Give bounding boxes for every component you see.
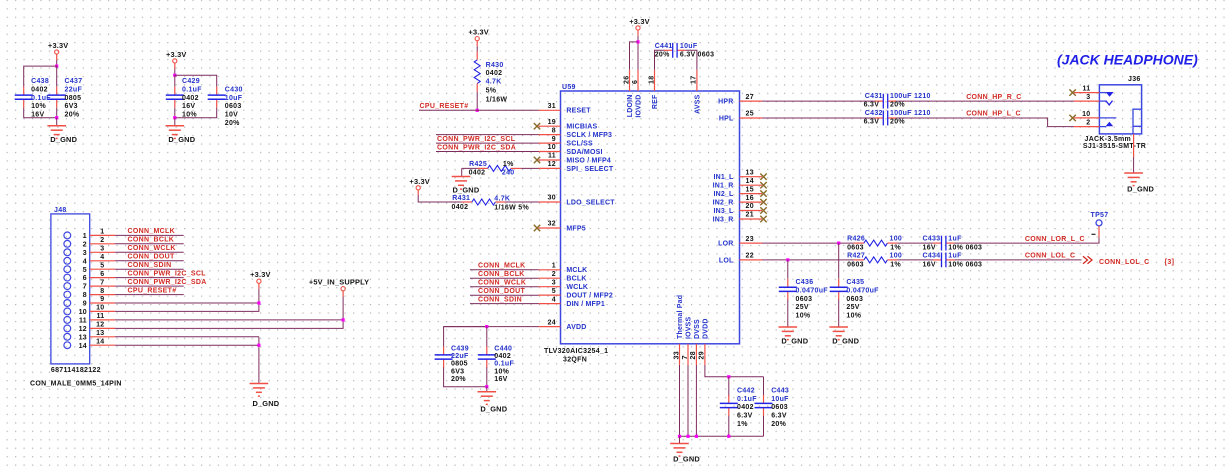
svg-text:CONN_SDIN: CONN_SDIN (478, 296, 522, 303)
svg-text:26: 26 (623, 76, 630, 84)
svg-text:687114182122: 687114182122 (51, 367, 101, 374)
wire AVDD (444, 327, 539, 348)
svg-text:240: 240 (502, 170, 515, 177)
svg-text:3: 3 (1086, 94, 1090, 101)
test point TP57 (1096, 220, 1102, 226)
pin 11 MISO / MFP4 U59 (539, 159, 561, 161)
svg-text:1%: 1% (503, 161, 514, 168)
pin 28 DVSS U59 bottom (695, 344, 697, 365)
capacitor C437 (56, 66, 58, 87)
wire +3.3V down to pin 9 (258, 289, 260, 303)
svg-text:23: 23 (746, 236, 754, 243)
ground D_GND (C436) (779, 326, 798, 328)
wire J48 pin 13 (115, 336, 259, 338)
svg-text:CONN_PWR_I2C_SDA: CONN_PWR_I2C_SDA (128, 279, 207, 286)
svg-text:R430: R430 (486, 62, 504, 69)
svg-text:D_GND: D_GND (50, 135, 77, 144)
svg-text:0603: 0603 (225, 103, 242, 110)
node junction pin 9 +3.3V (257, 301, 260, 304)
svg-text:(JACK HEADPHONE): (JACK HEADPHONE) (1057, 52, 1198, 68)
node junction C440 bottom (485, 385, 488, 388)
wire J48 pin 4 net CONN_DOUT (115, 260, 184, 262)
connector J48 body (51, 214, 90, 364)
wire R431 to LDO_SELECT (505, 201, 538, 203)
wire DVDD to C442/C443 rail (705, 365, 764, 377)
wire Thermal Pad to ground rail (679, 365, 681, 436)
svg-text:6: 6 (632, 80, 639, 84)
svg-text:10%: 10% (31, 103, 46, 110)
svg-text:CONN_LOL_C: CONN_LOL_C (1099, 259, 1149, 266)
svg-text:27: 27 (746, 94, 754, 101)
wire C438 top rail (24, 66, 57, 87)
svg-text:32QFN: 32QFN (563, 356, 587, 363)
svg-text:C440: C440 (494, 345, 512, 352)
connector J36 pin stubs (1074, 92, 1100, 94)
pin 33 Thermal Pad U59 bottom (679, 344, 681, 365)
svg-text:11: 11 (1083, 85, 1091, 92)
pin 19 MICBIAS U59 (539, 125, 561, 127)
svg-text:0402: 0402 (182, 95, 199, 102)
svg-text:DVDD: DVDD (703, 318, 710, 339)
wire J48 pin 1 net CONN_MCLK (115, 234, 184, 236)
svg-text:1/16W 5%: 1/16W 5% (494, 204, 529, 211)
svg-text:CONN_MCLK: CONN_MCLK (128, 228, 175, 235)
svg-text:19: 19 (548, 119, 556, 126)
wire +3.3V to R431 (418, 195, 462, 202)
svg-text:22uF: 22uF (65, 86, 83, 93)
power +3.3V (R430) (475, 37, 479, 41)
svg-text:13: 13 (79, 334, 87, 341)
svg-text:10: 10 (548, 144, 556, 151)
svg-text:16V: 16V (31, 112, 44, 119)
wire CPU_RESET# to RESET pin (419, 109, 539, 111)
wire J48 pin 11 (115, 319, 343, 321)
svg-text:CONN_BCLK: CONN_BCLK (128, 237, 175, 244)
svg-text:CONN_SDIN: CONN_SDIN (128, 262, 172, 269)
svg-text:0402: 0402 (452, 204, 469, 211)
wire C433 to TP57 (954, 237, 1099, 243)
svg-text:1/16W: 1/16W (486, 97, 508, 104)
resistor R427 (854, 259, 864, 261)
svg-text:10%: 10% (494, 368, 509, 375)
svg-text:6.3V: 6.3V (864, 119, 880, 126)
wire CONN_WCLK to U59 (470, 286, 539, 288)
svg-text:U59: U59 (562, 84, 576, 91)
pin 3 WCLK U59 (539, 286, 561, 288)
svg-text:10uF: 10uF (225, 95, 243, 102)
wire C436 to ground (787, 300, 789, 327)
svg-text:20: 20 (746, 203, 754, 210)
wire R430 to RESET (476, 92, 478, 111)
wire C430 bottom (175, 108, 217, 118)
svg-text:2: 2 (100, 237, 104, 244)
svg-text:0603: 0603 (698, 52, 715, 59)
capacitor C439 (443, 346, 445, 355)
svg-text:0.0470uF: 0.0470uF (846, 287, 879, 294)
svg-text:0603: 0603 (796, 296, 813, 303)
svg-text:D_GND: D_GND (673, 455, 700, 464)
ground D_GND (DVSS rail) (679, 436, 681, 443)
connector J48 pin stubs (90, 234, 115, 236)
pin 25 HPL U59 (740, 117, 763, 119)
svg-text:D_GND: D_GND (832, 337, 859, 346)
svg-text:AVDD: AVDD (566, 324, 586, 331)
svg-text:2: 2 (1086, 120, 1090, 127)
svg-text:SJ1-3515-SMT-TR: SJ1-3515-SMT-TR (1083, 143, 1146, 150)
wire IOVSS to ground rail (687, 365, 689, 436)
wire R427 to C434 (897, 259, 933, 261)
svg-text:D_GND: D_GND (168, 135, 195, 144)
svg-text:0402: 0402 (737, 404, 754, 411)
svg-text:16V: 16V (923, 261, 936, 268)
wire J48 pin 7 net CONN_PWR_I2C_SDA (115, 285, 184, 287)
svg-text:+5V_IN_SUPPLY: +5V_IN_SUPPLY (309, 278, 369, 287)
svg-text:20%: 20% (65, 112, 80, 119)
svg-text:HPR: HPR (718, 99, 733, 106)
svg-text:+3.3V: +3.3V (48, 41, 69, 50)
node junction pin 14 ground (257, 344, 260, 347)
svg-text:12: 12 (548, 161, 556, 168)
no-connect X jack pin 11 (1069, 89, 1075, 95)
wire C441 to AVSS (686, 50, 697, 70)
pin 15 IN2_L U59 (740, 193, 763, 195)
connector J36 body (1099, 85, 1141, 134)
svg-text:1%: 1% (890, 245, 901, 252)
wire CONN_DOUT to U59 (470, 294, 539, 296)
connector J48 pin circles (64, 232, 71, 239)
pin 31 RESET U59 (539, 109, 561, 111)
resistor R426 (854, 242, 864, 244)
pin 1 MCLK U59 (539, 269, 561, 271)
svg-text:10uF: 10uF (680, 43, 698, 50)
svg-text:+3.3V: +3.3V (629, 17, 650, 26)
svg-text:6V3: 6V3 (65, 103, 78, 110)
svg-text:1uF: 1uF (948, 253, 962, 260)
svg-text:10%: 10% (796, 313, 811, 320)
wire LOR to R426 (762, 242, 854, 244)
wire jack sleeve to ground (1133, 134, 1135, 157)
svg-text:LDO_SELECT: LDO_SELECT (566, 199, 615, 206)
resistor R430 (476, 52, 478, 60)
node junction C436 (786, 258, 789, 261)
power +3.3V (J48 pins 9-10) (257, 279, 261, 283)
svg-text:32: 32 (548, 221, 556, 228)
ground D_GND (C429/C430) (174, 118, 176, 126)
svg-text:LOR: LOR (718, 241, 733, 248)
svg-text:14: 14 (79, 343, 87, 350)
capacitor C441 (664, 49, 673, 51)
svg-text:J36: J36 (1128, 76, 1141, 83)
wire HPL to C432 (762, 117, 875, 119)
capacitor C432 (875, 117, 884, 119)
node junction top C429/C430 (173, 74, 176, 77)
capacitor C434 (933, 259, 942, 261)
svg-text:DOUT / MFP2: DOUT / MFP2 (566, 293, 613, 300)
node junction CPU_RESET# (476, 109, 479, 112)
svg-text:CONN_HP_L_C: CONN_HP_L_C (966, 111, 1021, 118)
off-page connector CONN_LOL_C (1083, 256, 1092, 264)
svg-text:11: 11 (79, 318, 87, 325)
connector J36 switch contact (1099, 100, 1106, 102)
svg-text:R426: R426 (847, 236, 865, 243)
svg-text:30: 30 (548, 195, 556, 202)
svg-text:SCL/SS: SCL/SS (566, 141, 593, 148)
svg-text:0402: 0402 (31, 86, 48, 93)
no-connect X jack pin 10 (1069, 115, 1075, 121)
wire HPR to C431 (762, 100, 875, 102)
svg-text:9: 9 (552, 136, 556, 143)
wire +3.3V to C437/C438 rail (56, 54, 58, 60)
pin 12 SPI_ SELECT U59 (539, 167, 561, 169)
pin 2 BCLK U59 (539, 277, 561, 279)
svg-text:0805: 0805 (451, 361, 468, 368)
svg-text:BCLK: BCLK (566, 276, 586, 283)
svg-text:CONN_DOUT: CONN_DOUT (478, 288, 525, 295)
svg-text:100uF 1210: 100uF 1210 (890, 93, 931, 100)
wire ground rail bottom (680, 435, 764, 437)
svg-text:25V: 25V (846, 304, 859, 311)
svg-text:33: 33 (673, 351, 680, 359)
svg-text:5%: 5% (486, 87, 497, 94)
pin 14 IN1_R U59 (740, 184, 763, 186)
svg-text:C443: C443 (771, 387, 789, 394)
svg-text:IN2_L: IN2_L (713, 191, 734, 198)
svg-text:D_GND: D_GND (480, 405, 507, 414)
svg-text:C438: C438 (31, 78, 49, 85)
pin 4 DIN / MFP1 U59 (539, 303, 561, 305)
svg-text:10%: 10% (182, 112, 197, 119)
ground D_GND (C437/C438) (56, 118, 58, 126)
pin 32 MFP5 U59 (539, 227, 561, 229)
svg-text:20%: 20% (890, 102, 905, 109)
svg-text:SPI_ SELECT: SPI_ SELECT (566, 166, 613, 173)
pin 21 IN3_R U59 (740, 218, 763, 220)
svg-text:LDOIN: LDOIN (627, 95, 634, 118)
wire pins 13-14 to ground (258, 337, 260, 384)
svg-text:5: 5 (83, 267, 87, 274)
svg-text:6: 6 (100, 271, 104, 278)
svg-text:24: 24 (548, 319, 556, 326)
op-amp U59 TLV320AIC3254 body (561, 91, 740, 344)
svg-text:4.7K: 4.7K (486, 79, 502, 86)
svg-text:5: 5 (100, 262, 104, 269)
svg-text:C441: C441 (655, 43, 673, 50)
ground D_GND (AVDD) (486, 387, 488, 392)
svg-text:10%: 10% (846, 313, 861, 320)
no-connect X IN pins (760, 174, 766, 180)
resistor R431 (462, 201, 472, 203)
svg-text:16V: 16V (494, 376, 507, 383)
svg-text:CON_MALE_0MM5_14PIN: CON_MALE_0MM5_14PIN (30, 380, 122, 387)
svg-text:1: 1 (83, 233, 87, 240)
svg-text:+3.3V: +3.3V (468, 28, 489, 37)
wire J48 pin 6 net CONN_PWR_I2C_SCL (115, 277, 184, 279)
svg-text:6.3V: 6.3V (680, 52, 696, 59)
node junction C435 (837, 242, 840, 245)
wire CONN_BCLK to U59 (470, 277, 539, 279)
wire J48 pin 9 (115, 302, 259, 304)
wire LOL to R427 (762, 259, 854, 261)
node junction bottom C437/C438 (55, 116, 58, 119)
svg-text:C436: C436 (796, 279, 814, 286)
node junction bottom C429/C430 (173, 116, 176, 119)
svg-text:C442: C442 (737, 387, 755, 394)
svg-text:100: 100 (890, 253, 903, 260)
wire C435 to ground (838, 300, 840, 327)
wire J48 pin 8 net CPU_RESET# (115, 294, 184, 296)
svg-text:CONN_PWR_I2C_SCL: CONN_PWR_I2C_SCL (128, 270, 207, 277)
svg-text:1: 1 (552, 263, 556, 270)
wire R425 to SPI_SELECT (521, 167, 538, 169)
wire +3.3V to C429 (174, 63, 176, 69)
wire +5V down to pin 11 (342, 297, 344, 320)
pin 30 LDO_SELECT U59 (539, 201, 561, 203)
svg-text:SCLK / MFP3: SCLK / MFP3 (566, 132, 612, 139)
svg-text:DIN / MFP1: DIN / MFP1 (566, 301, 605, 308)
capacitor C435 (838, 279, 840, 287)
svg-text:4: 4 (83, 258, 87, 265)
svg-text:13: 13 (746, 169, 754, 176)
svg-text:SDA/MOSI: SDA/MOSI (566, 149, 602, 156)
svg-text:LOL: LOL (719, 257, 734, 264)
power +5V_IN_SUPPLY (341, 287, 345, 291)
ground D_GND (J48) (250, 383, 269, 385)
svg-text:10% 0603: 10% 0603 (948, 261, 982, 268)
svg-text:Thermal Pad: Thermal Pad (677, 295, 684, 339)
svg-text:0.1uF: 0.1uF (182, 86, 202, 93)
svg-text:10: 10 (96, 305, 104, 312)
svg-text:9: 9 (100, 296, 104, 303)
pin 5 DOUT / MFP2 U59 (539, 294, 561, 296)
svg-text:25: 25 (746, 111, 754, 118)
svg-text:1%: 1% (737, 421, 748, 428)
svg-text:10V: 10V (225, 112, 238, 119)
capacitor C442 (728, 377, 730, 397)
svg-text:25V: 25V (796, 304, 809, 311)
wire CONN_MCLK to U59 (470, 269, 539, 271)
connector J36 sleeve (1133, 109, 1142, 134)
svg-text:4: 4 (552, 296, 556, 303)
svg-text:0603: 0603 (771, 404, 788, 411)
svg-text:RESET: RESET (566, 108, 591, 115)
svg-text:20%: 20% (771, 421, 786, 428)
svg-text:C439: C439 (451, 345, 469, 352)
no-connect X pin 11 MISO (534, 157, 540, 163)
svg-text:10: 10 (79, 309, 87, 316)
wire J48 pin 10 (115, 303, 259, 311)
svg-text:11: 11 (548, 153, 556, 160)
svg-text:+3.3V: +3.3V (409, 177, 430, 186)
svg-text:0.0470uF: 0.0470uF (796, 287, 829, 294)
svg-text:15: 15 (746, 186, 754, 193)
svg-text:IN2_R: IN2_R (713, 200, 734, 207)
svg-text:28: 28 (690, 351, 697, 359)
node junction top C437/C438 (55, 65, 58, 68)
pin 23 LOR U59 (740, 242, 763, 244)
svg-text:1: 1 (100, 229, 104, 236)
svg-text:2: 2 (552, 271, 556, 278)
svg-text:10: 10 (1082, 111, 1090, 118)
pin 7 IOVSS U59 bottom (687, 344, 689, 365)
svg-text:16: 16 (746, 195, 754, 202)
svg-text:22uF: 22uF (451, 353, 469, 360)
svg-text:7: 7 (100, 279, 104, 286)
svg-text:CPU_RESET#: CPU_RESET# (128, 287, 177, 294)
svg-text:1uF: 1uF (948, 236, 962, 243)
svg-text:12: 12 (79, 326, 87, 333)
svg-text:CPU_RESET#: CPU_RESET# (420, 103, 469, 110)
svg-text:16V: 16V (923, 245, 936, 252)
svg-text:3: 3 (552, 279, 556, 286)
svg-text:CONN_BCLK: CONN_BCLK (478, 271, 525, 278)
svg-text:20%: 20% (890, 119, 905, 126)
svg-text:7: 7 (83, 284, 87, 291)
wire J48 pin 12 (115, 320, 343, 329)
power +3.3V (R431) (416, 186, 420, 190)
svg-text:14: 14 (96, 338, 104, 345)
svg-text:IN3_R: IN3_R (713, 216, 734, 223)
svg-text:18: 18 (648, 76, 655, 84)
svg-text:[3]: [3] (1165, 259, 1174, 266)
svg-text:CONN_HP_R_C: CONN_HP_R_C (966, 94, 1021, 101)
svg-text:J48: J48 (54, 207, 67, 214)
svg-text:8: 8 (100, 288, 104, 295)
svg-text:9: 9 (83, 301, 87, 308)
svg-text:IN1_R: IN1_R (713, 183, 734, 190)
svg-text:0.1uF: 0.1uF (494, 361, 514, 368)
wire C438 bottom (24, 108, 57, 118)
svg-text:IOVDD: IOVDD (636, 95, 643, 118)
pin 10 SDA/MOSI U59 (539, 151, 561, 153)
svg-text:12: 12 (96, 322, 104, 329)
connector J36 ring contact (1099, 126, 1106, 128)
svg-text:WCLK: WCLK (566, 284, 588, 291)
svg-text:CONN_MCLK: CONN_MCLK (478, 263, 525, 270)
svg-text:20%: 20% (225, 120, 240, 127)
svg-text:CONN_WCLK: CONN_WCLK (128, 245, 176, 252)
svg-text:MISO / MFP4: MISO / MFP4 (566, 157, 611, 164)
svg-text:HPL: HPL (719, 115, 734, 122)
svg-text:29: 29 (699, 351, 706, 359)
capacitor C430 (216, 87, 218, 95)
node junction pin 11 +5V (342, 318, 345, 321)
no-connect X pin 32 MFP5 (534, 225, 540, 231)
svg-text:JACK-3.5mm: JACK-3.5mm (1085, 136, 1132, 143)
svg-text:8: 8 (83, 292, 87, 299)
svg-text:14: 14 (746, 178, 754, 185)
svg-text:+3.3V: +3.3V (166, 50, 187, 59)
svg-text:C431: C431 (865, 93, 883, 100)
pin 24 AVDD U59 (539, 326, 561, 328)
node junction C440 top (485, 325, 488, 328)
svg-text:0603: 0603 (847, 245, 864, 252)
svg-text:31: 31 (548, 103, 556, 110)
svg-text:3: 3 (83, 250, 87, 257)
wire SCL/SS pin 9 (436, 142, 539, 144)
pin 17 AVSS U59 top (696, 70, 698, 91)
svg-text:IOVSS: IOVSS (686, 316, 693, 339)
svg-text:6.3V: 6.3V (864, 102, 880, 109)
wire J48 pin 5 net CONN_SDIN (115, 268, 184, 270)
wire CONN_SDIN to U59 (470, 303, 539, 305)
pin 27 HPR U59 (740, 100, 763, 102)
ground D_GND (R425) (452, 176, 471, 178)
connector J36 ring line (1099, 117, 1116, 119)
svg-text:R425: R425 (469, 161, 487, 168)
wire C431 to jack pin 3 (896, 100, 1074, 102)
svg-text:IN3_L: IN3_L (713, 208, 734, 215)
pin 8 SCLK / MFP3 U59 (539, 134, 561, 136)
